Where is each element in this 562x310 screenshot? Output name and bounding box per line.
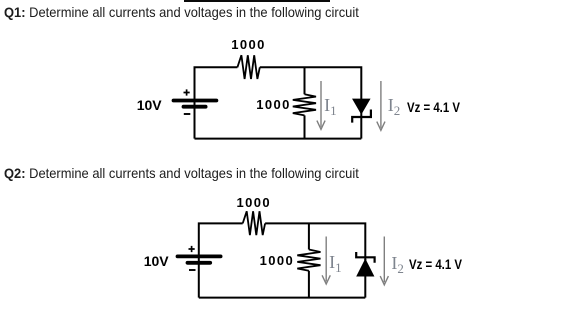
wire: Q1 middle branch lower — [304, 115, 306, 138]
current arrow I1 (Q1) — [317, 81, 325, 129]
wire: Q1 bottom — [195, 138, 362, 140]
resistor R1 1000 (series, horizontal) — [237, 55, 259, 79]
battery V2 short plate — [188, 261, 211, 265]
wire: Q1 right branch through diode — [360, 99, 362, 139]
current label I1 (Q2) — [329, 252, 342, 276]
resistor R3 1000 (series, horizontal) — [243, 211, 265, 235]
wire: Q2 bottom — [199, 297, 365, 299]
zener diode D1 triangle — [353, 99, 370, 114]
wire: Q1 top-right segment — [260, 67, 362, 99]
heading Q2 — [4, 165, 359, 181]
battery V1 plus sign — [184, 89, 190, 95]
value label Vz = 4.1 V (Q1) — [407, 100, 460, 115]
wire: Q2 middle branch lower — [308, 271, 310, 298]
current label I2 (Q2) — [391, 253, 404, 277]
current arrow I1 (Q2) — [322, 237, 330, 285]
label 10V (Q2) — [144, 253, 169, 269]
battery V2 long plate — [178, 254, 221, 258]
zener diode D1 cathode bar with bent ends — [352, 110, 371, 123]
battery V1 short plate — [184, 105, 206, 109]
top partial border line — [184, 0, 330, 2]
wire: Q1 left lower — [194, 98, 196, 139]
current arrow I2 (Q2) — [380, 237, 388, 285]
current label I1 (Q1) — [324, 95, 337, 119]
battery V1 long plate — [174, 99, 217, 103]
battery V2 minus sign — [189, 269, 196, 271]
wire: Q2 top-left segment — [199, 223, 243, 254]
resistor R2 1000 (shunt, vertical) — [293, 94, 316, 115]
label 10V (Q1) — [137, 97, 162, 113]
wire: Q1 middle branch upper — [304, 67, 306, 94]
value label 1000 (Q2 shunt resistor) — [260, 253, 295, 268]
wire: Q1 top-left segment — [195, 67, 238, 98]
wire: Q2 left lower — [198, 254, 200, 298]
value label 1000 (Q2 series resistor) — [237, 195, 272, 210]
value label Vz = 4.1 V (Q2) — [409, 257, 462, 272]
wire: Q2 top-right segment — [265, 223, 365, 260]
current label I2 (Q1) — [388, 95, 401, 119]
resistor R4 1000 (shunt, vertical) — [297, 250, 320, 271]
value label 1000 (Q1 series resistor) — [231, 37, 266, 52]
heading Q1 — [4, 4, 359, 20]
value label 1000 (Q1 shunt resistor) — [256, 97, 291, 112]
zener diode D2 triangle (pointing up) — [357, 260, 374, 276]
zener diode D2 cathode bar with bent ends — [356, 252, 374, 263]
battery V2 plus sign — [189, 246, 195, 252]
wire: Q2 right branch through diode — [364, 259, 366, 298]
wire: Q2 middle branch upper — [308, 223, 310, 249]
battery V1 minus sign — [184, 113, 191, 115]
current arrow I2 (Q1) — [377, 81, 385, 130]
